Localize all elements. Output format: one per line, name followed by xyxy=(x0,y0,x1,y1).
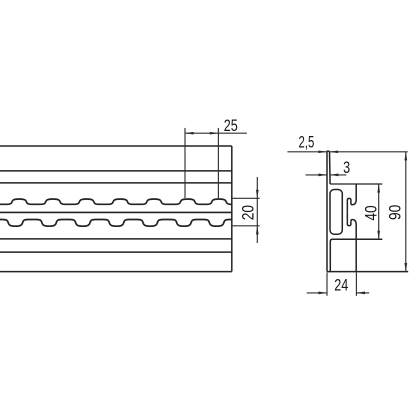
dimension 24: left arrowhead xyxy=(318,292,327,295)
rail upper groove line 2 xyxy=(0,182,232,184)
section slot mouth upper lip xyxy=(347,184,356,212)
dimension 90: dimension line xyxy=(405,152,407,272)
dimension 20: bottom arrowhead xyxy=(256,226,259,235)
dimension 25: left arrowhead xyxy=(185,132,194,135)
rail lower groove line 1 xyxy=(0,238,232,240)
section wall top cap xyxy=(326,150,329,152)
section wall inner (right) face xyxy=(329,151,332,184)
dimension 90: bottom arrowhead xyxy=(404,263,407,272)
dimension 2,5: right line (also 90 top extension) xyxy=(330,151,408,153)
serration row 1 (bumps up) xyxy=(0,199,232,204)
rail bottom edge xyxy=(0,271,232,273)
dimension 25: dimension line with tail xyxy=(185,132,247,134)
dimension 25: right arrowhead xyxy=(210,132,219,135)
dimension 40: top arrowhead xyxy=(377,184,380,193)
dimension 24: extension line left xyxy=(326,273,328,296)
rail middle line xyxy=(0,211,232,213)
svg-text:24: 24 xyxy=(334,277,348,295)
dimension 3: right arrowhead xyxy=(330,174,339,177)
dimension 2,5: left arrowhead xyxy=(318,150,327,153)
svg-text:2,5: 2,5 xyxy=(299,132,315,151)
dimension 24: left tail line xyxy=(307,292,327,294)
section bottom edge (also 90 bottom extension) xyxy=(327,271,408,273)
dimension 2,5: right arrowhead xyxy=(330,150,339,153)
dimension 2,5: left tail line xyxy=(287,151,327,153)
rail upper groove line 1 xyxy=(0,170,232,172)
svg-text:90: 90 xyxy=(386,205,404,220)
rail top edge xyxy=(0,145,232,147)
section rear (left) face xyxy=(326,151,328,271)
dimension 3: left tail line xyxy=(306,174,328,176)
section slot floor and inner wall (also 40 bottom extension) xyxy=(330,239,382,271)
dimension 24: extension line right xyxy=(355,273,357,296)
dimension 90: top arrowhead xyxy=(404,152,407,161)
serration row 2 (bumps down) xyxy=(0,220,232,227)
rail lower groove line 2 xyxy=(0,251,232,253)
section body top surface (also 40 top extension) xyxy=(330,183,382,185)
svg-text:40: 40 xyxy=(363,205,381,220)
dimension 20: extension line bottom xyxy=(232,225,260,227)
dimension 20: dimension line xyxy=(256,177,258,243)
svg-text:25: 25 xyxy=(224,118,238,136)
dimension 25: extension line left xyxy=(184,128,186,198)
dimension 20: extension line top xyxy=(232,197,260,199)
dimension 40: dimension line xyxy=(378,184,380,239)
dimension 24: right arrowhead xyxy=(356,292,365,295)
section slot mouth lower lip xyxy=(347,212,356,271)
dimension 3: left arrowhead xyxy=(318,174,327,177)
rail right end edge xyxy=(231,146,233,272)
dimension 40: bottom arrowhead xyxy=(377,231,380,240)
dimension 20: top arrowhead xyxy=(256,190,259,199)
svg-text:20: 20 xyxy=(239,205,257,220)
section slot pocket xyxy=(330,190,342,235)
dimension 24: right tail line xyxy=(356,292,369,294)
dimension 25: extension line right xyxy=(217,128,219,198)
svg-text:3: 3 xyxy=(343,160,350,178)
dimension 3: right tail line xyxy=(330,174,346,176)
